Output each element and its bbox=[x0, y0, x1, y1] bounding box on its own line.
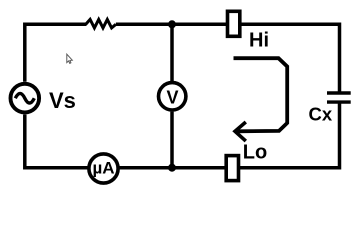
svg-text:Cx: Cx bbox=[309, 104, 333, 125]
wire voltmeter down to bottom junction bbox=[170, 112, 174, 168]
terminal Hi (rectangle) bbox=[228, 11, 240, 36]
cursor (mouse pointer) bbox=[67, 54, 73, 63]
wire junction down to voltmeter bbox=[170, 24, 174, 81]
wire top-left segment (top-left corner to resistor) bbox=[25, 24, 87, 81]
svg-text:V: V bbox=[167, 87, 179, 107]
wire capacitor down to bottom-right corner and to Lo terminal bbox=[240, 102, 340, 168]
wire resistor to Hi terminal bbox=[116, 23, 226, 27]
capacitor Cx (plates) bbox=[327, 91, 351, 94]
source Vs (circle) bbox=[10, 84, 39, 113]
svg-text:µA: µA bbox=[93, 159, 115, 178]
svg-text:Vs: Vs bbox=[49, 88, 76, 113]
wire ammeter to bottom-left corner up to source bbox=[25, 115, 88, 168]
svg-text:Hi: Hi bbox=[249, 30, 269, 52]
voltmeter V (circle) bbox=[159, 83, 186, 110]
node junction bottom (dot) bbox=[168, 164, 176, 172]
resistor (zigzag) bbox=[86, 19, 116, 28]
source sine wave bbox=[15, 93, 34, 103]
terminal Lo (rectangle) bbox=[226, 156, 238, 181]
arrow current-path indicator bbox=[234, 58, 288, 131]
node junction top (dot) bbox=[168, 20, 176, 28]
wire Lo terminal to micro-ammeter bbox=[119, 166, 226, 170]
svg-text:Lo: Lo bbox=[243, 142, 267, 164]
arrowhead bbox=[235, 122, 246, 141]
wire Hi to top-right corner, down to capacitor bbox=[242, 24, 340, 91]
ammeter uA (circle) bbox=[89, 154, 118, 183]
